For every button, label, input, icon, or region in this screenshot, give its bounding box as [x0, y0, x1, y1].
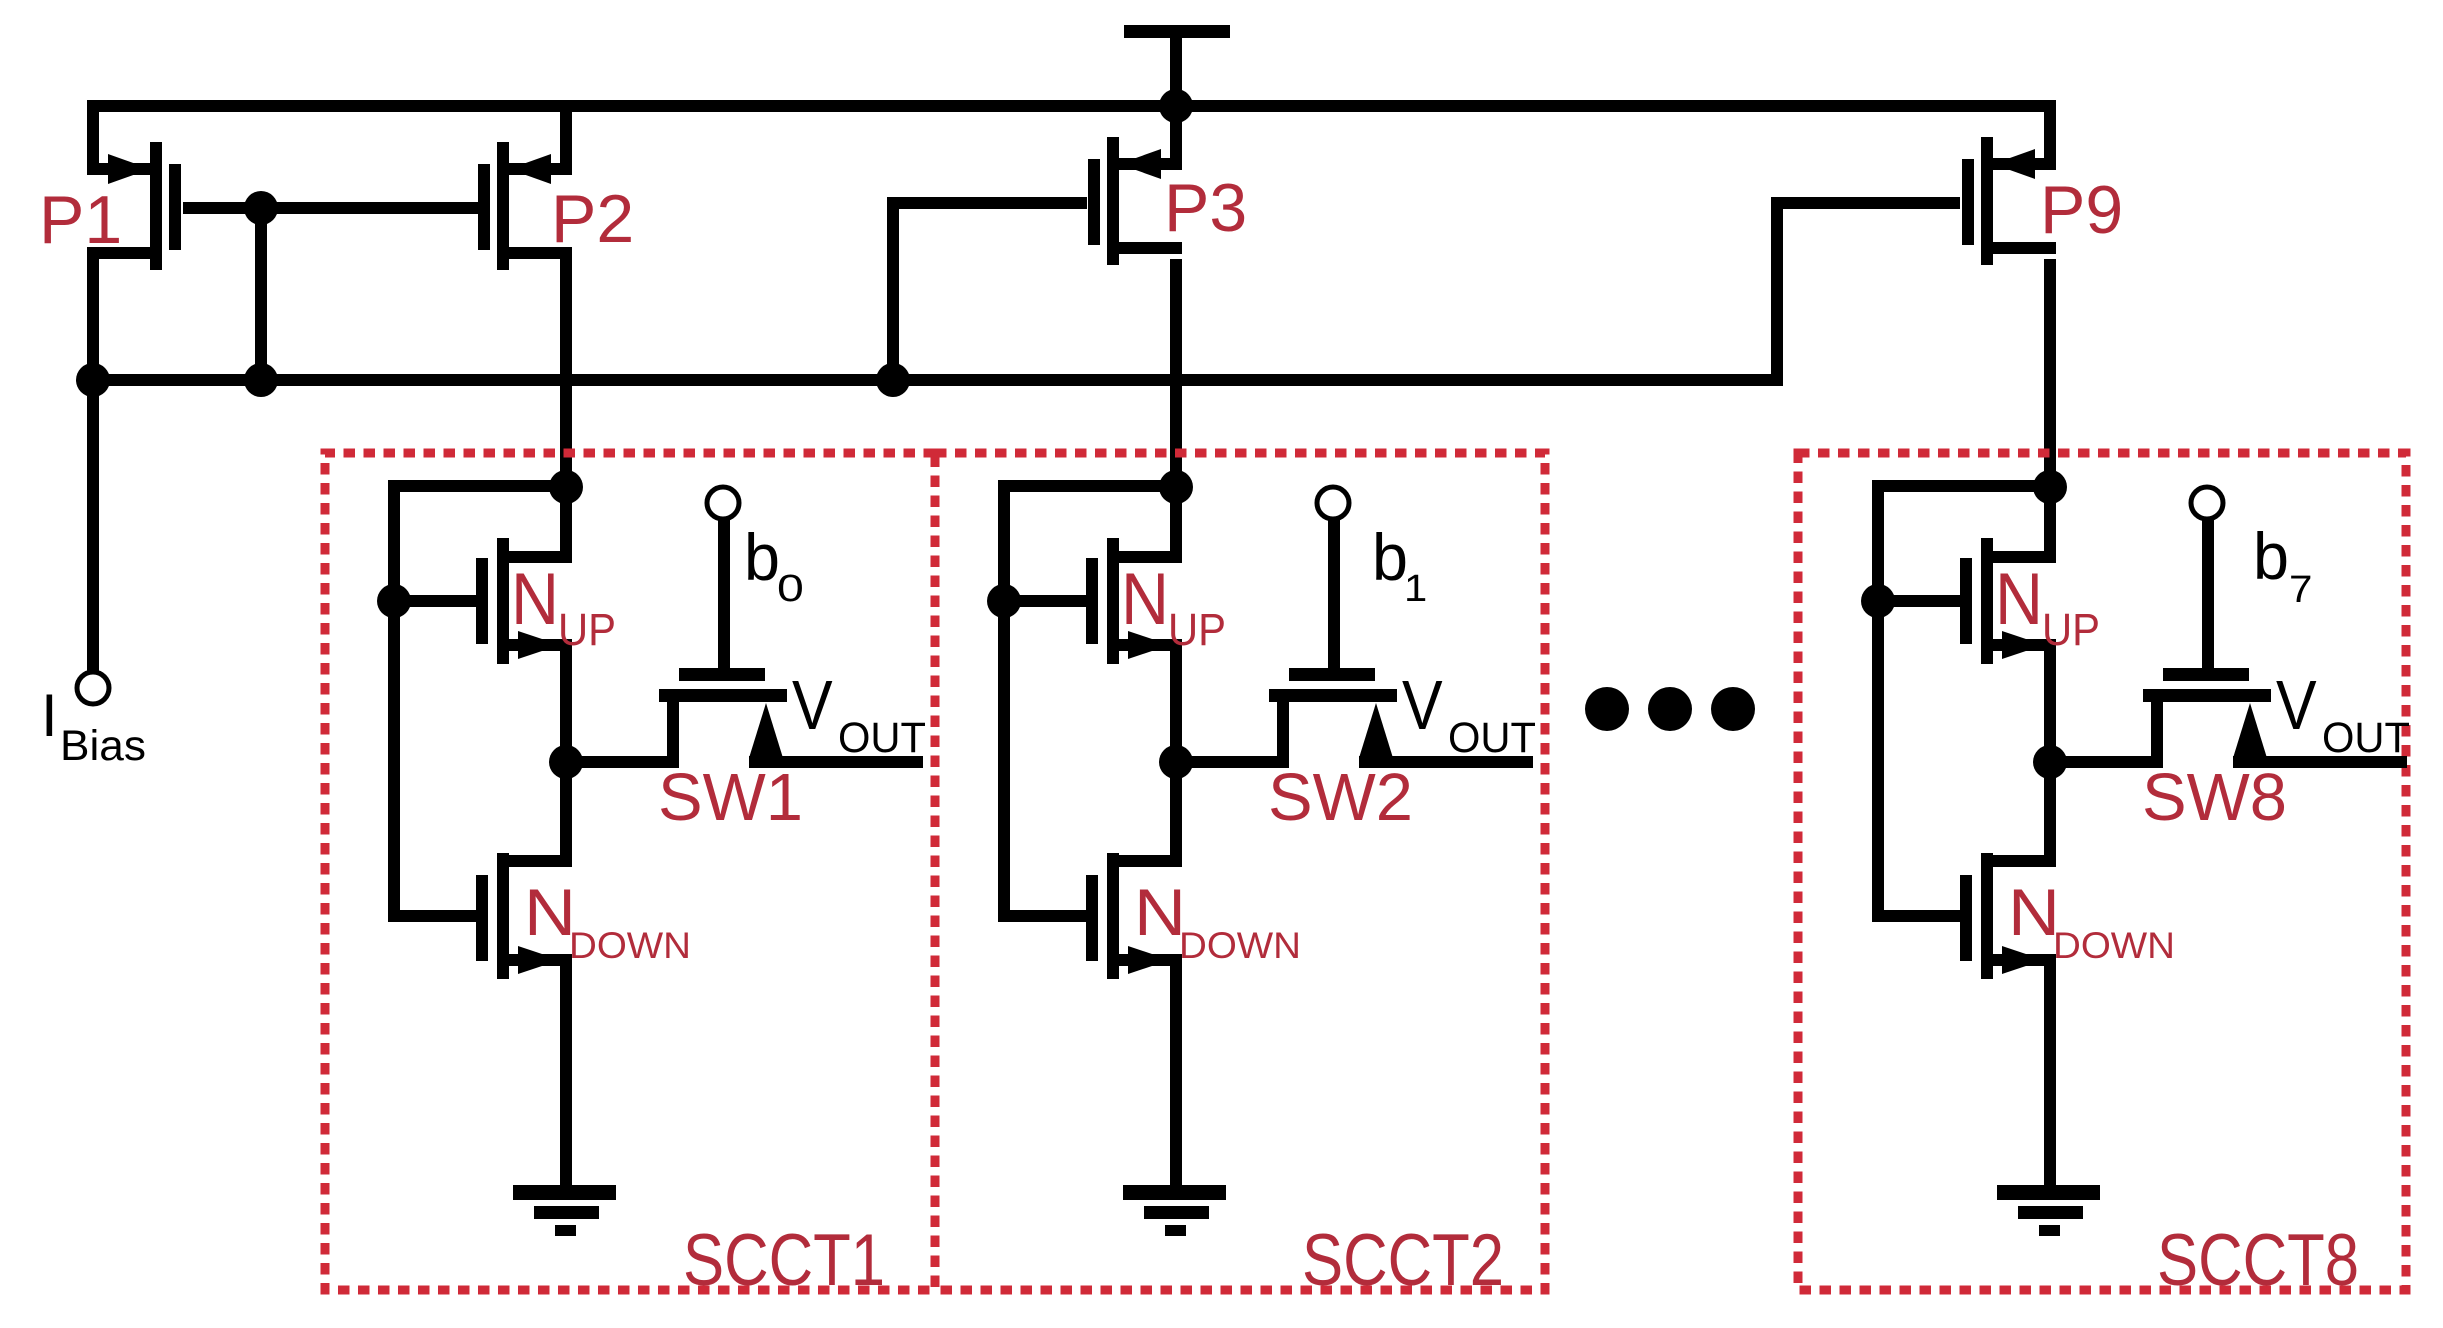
terminal I_Bias: [77, 672, 109, 704]
ground symbol of SCCT1: [513, 1185, 616, 1236]
svg-text:Bias: Bias: [60, 722, 146, 770]
transistor N_UP of SCCT2 (NMOS): [1004, 487, 1182, 768]
switch transistor SW1 (NMOS): [566, 516, 923, 768]
svg-text:SW2: SW2: [1268, 760, 1413, 835]
wire SCCT8 top branch: [1872, 480, 2056, 492]
node bus/P3 gate junction: [876, 363, 910, 397]
label N_UP of SCCT2: [1121, 559, 1226, 655]
svg-text:7: 7: [2289, 568, 2312, 611]
svg-text:OUT: OUT: [2322, 714, 2410, 762]
label b1: [1372, 520, 1427, 610]
transistor N_UP of SCCT1 (NMOS): [394, 487, 572, 768]
ground symbol of SCCT8: [1997, 1185, 2100, 1236]
wire I_Bias lead: [87, 380, 99, 672]
label N_DOWN of SCCT1: [524, 875, 691, 966]
svg-text:DOWN: DOWN: [1179, 925, 1301, 966]
svg-text:N: N: [511, 559, 559, 640]
svg-text:b: b: [744, 520, 780, 594]
svg-text:b: b: [2253, 519, 2289, 593]
wire gate bus: [87, 374, 1783, 386]
wire P1 drain to bus: [87, 259, 99, 386]
wire SCCT1 gate link (left branch): [388, 480, 400, 922]
ellipsis dots between SCCT2 and SCCT8: [1585, 687, 1755, 731]
node SCCT1 output junction: [549, 745, 583, 779]
svg-text:N: N: [1995, 559, 2043, 640]
node SCCT2 output junction: [1159, 745, 1193, 779]
node bus/P1 drain junction: [76, 363, 110, 397]
transistor N_DOWN of SCCT2 (NMOS): [998, 754, 1182, 1185]
svg-text:P3: P3: [1164, 170, 1247, 246]
wire SCCT8 gate link (left branch): [1872, 480, 1884, 922]
terminal b1 of SW2: [1317, 487, 1349, 519]
transistor P2 (PMOS): [478, 110, 572, 270]
label N_DOWN of SCCT2: [1134, 875, 1301, 966]
svg-text:OUT: OUT: [838, 714, 926, 762]
wire SCCT2 gate link (left branch): [998, 480, 1010, 922]
node SCCT1 N_UP gate junction: [377, 584, 411, 618]
wire P3 drain into SCCT2: [1170, 259, 1182, 493]
svg-text:V: V: [1402, 666, 1443, 744]
transistor P9 (PMOS): [1962, 110, 2056, 265]
node SCCT8 N_UP gate junction: [1861, 584, 1895, 618]
wire P9 gate connection: [1771, 197, 1960, 386]
label I_Bias: [41, 682, 146, 770]
wire SCCT2 top branch: [998, 480, 1182, 492]
transistor N_DOWN of SCCT1 (NMOS): [388, 754, 572, 1185]
terminal b7 of SW8: [2191, 487, 2223, 519]
switch transistor SW2 (NMOS): [1176, 516, 1533, 768]
label V_OUT of SCCT1: [792, 666, 926, 762]
label N_UP of SCCT8: [1995, 559, 2100, 655]
label b7: [2253, 519, 2312, 611]
dashed box SCCT1: [325, 453, 935, 1290]
label N_DOWN of SCCT8: [2008, 875, 2175, 966]
node bus/gate-link junction: [244, 363, 278, 397]
dashed box SCCT8: [1798, 453, 2406, 1290]
svg-text:UP: UP: [2042, 604, 2100, 655]
wire P2 drain into SCCT1: [560, 259, 572, 493]
VDD supply symbol: [1124, 25, 1230, 104]
terminal b0 of SW1: [707, 487, 739, 519]
node SCCT2 N_UP gate junction: [987, 584, 1021, 618]
svg-text:SCCT1: SCCT1: [683, 1220, 885, 1301]
svg-text:OUT: OUT: [1448, 714, 1536, 762]
svg-text:DOWN: DOWN: [2053, 925, 2175, 966]
svg-text:SCCT8: SCCT8: [2157, 1220, 2359, 1301]
transistor P1 (PMOS): [87, 110, 181, 270]
svg-text:P1: P1: [39, 182, 122, 258]
svg-text:N: N: [1121, 559, 1169, 640]
wire P1-P2 gate link: [183, 202, 478, 214]
svg-text:P2: P2: [551, 181, 634, 257]
node SCCT8 top junction: [2033, 470, 2067, 504]
wire gate junction to bus: [255, 208, 267, 386]
wire P9 drain into SCCT8: [2044, 259, 2056, 493]
wire SCCT1 top branch: [388, 480, 572, 492]
label V_OUT of SCCT8: [2276, 666, 2410, 762]
transistor N_UP of SCCT8 (NMOS): [1878, 487, 2056, 768]
wire VDD top rail: [87, 100, 2056, 112]
svg-text:SW1: SW1: [658, 760, 803, 835]
svg-text:DOWN: DOWN: [569, 925, 691, 966]
svg-text:I: I: [41, 682, 58, 749]
svg-text:P9: P9: [2040, 172, 2123, 248]
node P1/P2 gate junction: [244, 191, 278, 225]
svg-text:V: V: [792, 666, 833, 744]
ground symbol of SCCT2: [1123, 1185, 1226, 1236]
transistor N_DOWN of SCCT8 (NMOS): [1872, 754, 2056, 1185]
label b0: [744, 520, 804, 610]
wire P3 gate connection: [887, 197, 1087, 386]
node SCCT2 top junction: [1159, 470, 1193, 504]
label V_OUT of SCCT2: [1402, 666, 1536, 762]
svg-text:SCCT2: SCCT2: [1302, 1220, 1504, 1301]
dashed box SCCT2: [935, 453, 1545, 1290]
svg-text:0: 0: [777, 568, 804, 610]
svg-text:b: b: [1372, 520, 1408, 594]
svg-text:SW8: SW8: [2142, 760, 2287, 835]
transistor P3 (PMOS): [1088, 110, 1182, 265]
node SCCT1 top junction: [549, 470, 583, 504]
node VDD/P3 source junction: [1159, 89, 1193, 123]
node SCCT8 output junction: [2033, 745, 2067, 779]
switch transistor SW8 (NMOS): [2050, 516, 2407, 768]
label N_UP of SCCT1: [511, 559, 616, 655]
svg-text:V: V: [2276, 666, 2317, 744]
svg-text:UP: UP: [558, 604, 616, 655]
svg-text:1: 1: [1404, 568, 1427, 610]
svg-text:UP: UP: [1168, 604, 1226, 655]
